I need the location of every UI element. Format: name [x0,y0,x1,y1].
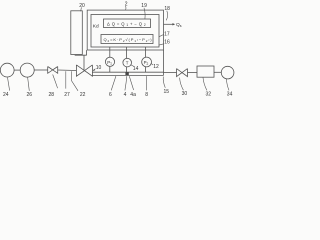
label 12 [153,64,159,70]
svg-text:Q2=K·P2√(P1²−P2²): Q2=K·P2√(P1²−P2²) [104,37,153,43]
svg-text:30: 30 [182,91,188,97]
leader 17 [159,34,164,36]
svg-text:18: 18 [164,6,170,12]
leader 32 [203,78,207,91]
label 15 [164,89,170,95]
leader 10 arrow [93,69,95,71]
conduit 4 bottom line [93,74,164,76]
svg-text:Kd: Kd [93,23,99,29]
tank 26 [20,63,34,77]
leader 28 [53,75,58,89]
svg-text:16: 16 [164,40,170,46]
actuator box 20 [71,11,83,55]
leader 15 [163,77,165,88]
leader 24 [8,77,10,90]
formula Q text [104,37,153,43]
label 4a [130,92,136,98]
wire pipe 24-26 [14,69,20,71]
svg-text:32: 32 [206,91,212,97]
svg-text:2: 2 [125,1,128,7]
label 27 [64,92,70,98]
stem P1 lower [109,66,111,72]
leader 18 [166,11,167,20]
sensor P1 [105,57,114,66]
leader 20 [80,7,83,11]
svg-text:27: 27 [64,92,70,98]
stem P2 upper [145,47,147,57]
svg-text:12: 12 [153,64,159,70]
stem P2 lower [145,67,147,72]
valve 22 stem [75,50,87,71]
label 16 [164,40,170,46]
label 8 [145,92,148,98]
leader 4 [125,76,127,90]
leader 16 [159,44,164,45]
label 28 [49,92,55,98]
orifice 4a [125,72,128,75]
svg-text:ΔQ=Q1+−Q2: ΔQ=Q1+−Q2 [107,21,148,27]
svg-text:T: T [126,61,129,66]
formula box 19 [104,19,151,28]
wire pipe 26-28 [34,69,48,71]
stem P1 upper [109,47,111,57]
leader 8 [146,76,148,90]
controller inner box [91,15,159,48]
leader 30 [180,78,184,91]
controller outer box 2 [87,10,163,50]
leader 22 [72,71,79,91]
valve 30 [177,69,188,77]
svg-text:6: 6 [109,92,112,98]
stem T lower [126,67,128,72]
wire pipe 28-22 [58,69,77,72]
formula box 17 [101,35,153,44]
box 32 [197,66,214,77]
label 32 [206,91,212,97]
label 4 [124,92,127,98]
Kd text [93,23,99,29]
conduit 4 top line [93,71,164,73]
leader 12 [151,63,153,65]
label 2 [125,1,128,7]
leader 27 [65,71,67,88]
svg-text:17: 17 [164,32,170,38]
leader 26 [28,77,30,91]
label 34 [227,91,233,97]
svg-text:20: 20 [79,3,85,9]
valve 28 [48,67,58,74]
svg-text:P1: P1 [107,60,112,66]
svg-text:P2: P2 [144,60,149,66]
label 22 [80,92,86,98]
label 19 [141,3,147,9]
leader 34 [226,79,229,90]
svg-text:15: 15 [164,89,170,95]
svg-text:34: 34 [227,91,233,97]
wire box2 right edge down to pipe [163,50,165,75]
stem T upper [126,47,128,58]
svg-text:4: 4 [124,92,127,98]
label 24 [3,92,9,98]
sensor P2 [142,57,152,67]
label 30 [182,91,188,97]
leader 19 [144,8,145,19]
control valve 22 [76,65,92,76]
label 6 [109,92,112,98]
circle 34 [221,66,234,79]
label 26 [27,92,33,98]
tank 24 [0,63,14,77]
svg-text:28: 28 [49,92,55,98]
label 10 [96,65,102,71]
svg-text:14: 14 [133,66,139,72]
svg-text:4a: 4a [130,92,136,98]
svg-text:22: 22 [80,92,86,98]
leader 4a [129,76,133,90]
label 18 [164,6,170,12]
label 20 [79,3,85,9]
label 17 [164,32,170,38]
svg-text:10: 10 [96,65,102,71]
leader 2 [125,6,127,10]
svg-text:24: 24 [3,92,9,98]
wire valve 30 to box 32 [188,71,198,73]
svg-text:8: 8 [145,92,148,98]
svg-text:26: 26 [27,92,33,98]
label 14 [133,66,139,72]
wire box 32 to 34 [214,71,221,73]
formula dQ text [107,21,148,27]
output Qs arrow [164,23,175,25]
wire pipe to valve 30 [164,71,177,73]
leader 14 [131,65,134,67]
sensor T [123,58,132,67]
label Qs [176,22,182,28]
leader 6 [111,76,116,90]
